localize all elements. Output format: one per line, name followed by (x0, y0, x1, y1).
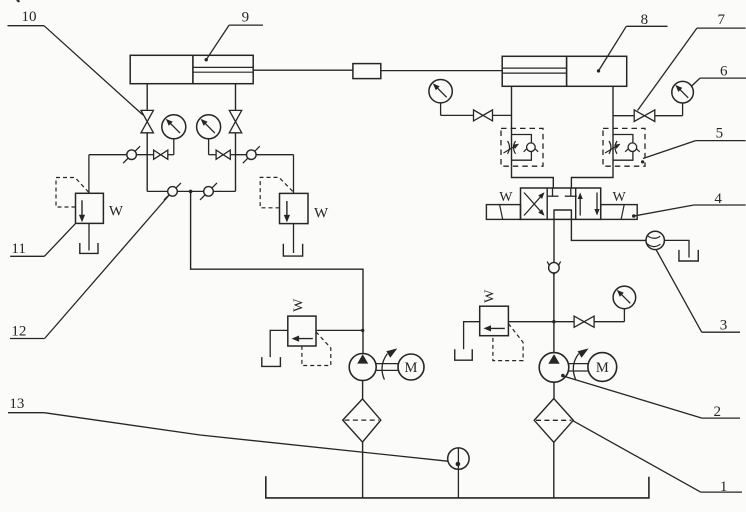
relief valve pump1 (288, 316, 331, 365)
svg-text:8: 8 (641, 12, 649, 28)
svg-text:13: 13 (9, 396, 24, 412)
W label valve right (613, 190, 627, 205)
shaft pump1 (376, 364, 398, 371)
directional valve 4 body (521, 188, 601, 219)
wire block L to valve (512, 166, 554, 188)
svg-text:9: 9 (242, 10, 250, 26)
valve 4 center position (547, 188, 577, 219)
pump P2 (539, 353, 569, 383)
svg-text:7: 7 (718, 12, 726, 28)
wire check to pump (553, 274, 555, 353)
svg-text:W: W (292, 298, 307, 312)
valve 4 right spring box (601, 205, 638, 220)
label 5 (643, 126, 746, 159)
quick coupling right (243, 146, 260, 163)
tank relief pump1 (262, 357, 281, 366)
junction node (189, 190, 193, 194)
wire cyl8 right port (612, 86, 614, 128)
rod coupling (253, 64, 502, 79)
W spring label pump2 relief (482, 289, 497, 303)
label 10 (8, 9, 144, 115)
wire right relief to tank (293, 224, 295, 253)
pressure gauge cyl8 left (429, 80, 452, 116)
tank main (266, 476, 649, 498)
label 6 (692, 64, 746, 87)
manifold wire (147, 190, 235, 192)
W label relief 11 (109, 204, 124, 220)
valve 4 parallel arrows (578, 193, 600, 216)
wire filter2 to tank (553, 442, 555, 498)
wire valve T line (571, 219, 646, 240)
label 8 (597, 12, 668, 73)
quick coupling left (123, 146, 140, 163)
wire pump2 to filter (553, 382, 555, 398)
shut-off valve right (229, 110, 241, 132)
rotation arrow pump1 (382, 348, 397, 379)
gauge isolation valve right (209, 150, 236, 159)
W label valve left (499, 190, 513, 205)
wire relief pump1 inlet (316, 329, 364, 332)
shut-off valve 10 (141, 110, 153, 132)
shut-off valve tap (574, 316, 624, 327)
svg-text:W: W (482, 289, 497, 303)
pressure gauge 6 (672, 81, 694, 115)
label 12 (10, 196, 169, 340)
svg-text:M: M (596, 360, 609, 376)
shut-off valve 7 (613, 110, 683, 122)
quick coupling 12 (164, 183, 181, 200)
wire cyl9 right port (235, 84, 237, 111)
svg-text:12: 12 (11, 324, 26, 340)
wire cyl8 left port (511, 86, 513, 128)
filter F1 (343, 399, 381, 442)
wire left port lower (146, 133, 148, 192)
one-way throttle valve left (501, 128, 543, 166)
wire level gauge to tank (457, 469, 459, 498)
wire relief 11 to tank (88, 223, 90, 250)
svg-text:3: 3 (720, 318, 728, 334)
wire block R to valve (571, 166, 613, 188)
wire valve P line (553, 219, 555, 262)
wire relief pump2 inlet (508, 321, 554, 323)
svg-text:W: W (499, 190, 513, 205)
label 3 (656, 250, 740, 334)
wire flowmeter to tank (664, 240, 689, 257)
pressure gauge right (197, 115, 221, 155)
wire pump1 to filter (362, 381, 364, 399)
label 9 (205, 10, 264, 62)
cylinder 9 (130, 55, 253, 83)
label 11 (10, 224, 75, 257)
label 7 (638, 12, 746, 111)
wire to right relief (236, 155, 294, 194)
label 4 (632, 191, 746, 218)
one-way throttle valve 5 (603, 128, 645, 166)
motor M1 (398, 354, 424, 380)
gauge valve cyl8 left (441, 110, 512, 121)
check valve (547, 262, 560, 275)
svg-text:W: W (109, 204, 124, 220)
valve 4 left spring box (486, 205, 520, 220)
W spring label pump1 relief (292, 298, 307, 312)
relief valve 11 (56, 178, 103, 224)
filter F2 (1) (534, 399, 573, 443)
relief valve left-circuit right (260, 177, 308, 223)
cylinder 8 (502, 56, 627, 86)
wire supply drop (191, 191, 363, 353)
tank right relief (283, 244, 302, 256)
pump P1 (349, 354, 376, 381)
label 13 (8, 396, 448, 461)
svg-text:5: 5 (716, 126, 724, 142)
svg-text:W: W (613, 190, 627, 205)
page artifact mark (17, 0, 20, 2)
relief valve pump2 (480, 306, 523, 360)
tank flowmeter (679, 250, 698, 261)
shaft pump2 (569, 364, 588, 371)
wire relief pump1 tank (270, 330, 288, 357)
svg-text:10: 10 (22, 9, 37, 25)
gauge isolation valve left (147, 150, 174, 159)
rotation arrow pump2 (573, 348, 588, 379)
tank relief pump2 (455, 349, 473, 360)
quick coupling manifold right (200, 183, 217, 200)
wire relief tap (552, 320, 574, 323)
flow meter 3 (646, 231, 664, 249)
label 2 (561, 374, 740, 420)
pressure gauge left (162, 115, 186, 155)
svg-text:W: W (314, 206, 329, 222)
svg-text:M: M (405, 360, 418, 376)
tank relief 11 (80, 243, 98, 253)
pressure gauge 2circuit (613, 286, 636, 322)
wire right port lower (235, 133, 237, 192)
svg-text:6: 6 (720, 64, 728, 80)
W label right relief (314, 206, 329, 222)
level gauge 13 (448, 448, 469, 469)
label 1 (573, 421, 742, 495)
wire to relief 11 (89, 155, 147, 194)
wire relief pump2 tank (464, 322, 480, 350)
motor M2 (588, 353, 617, 382)
svg-text:11: 11 (11, 241, 25, 257)
wire filter1 to tank (362, 442, 364, 498)
wire cyl9 left port (146, 84, 148, 111)
